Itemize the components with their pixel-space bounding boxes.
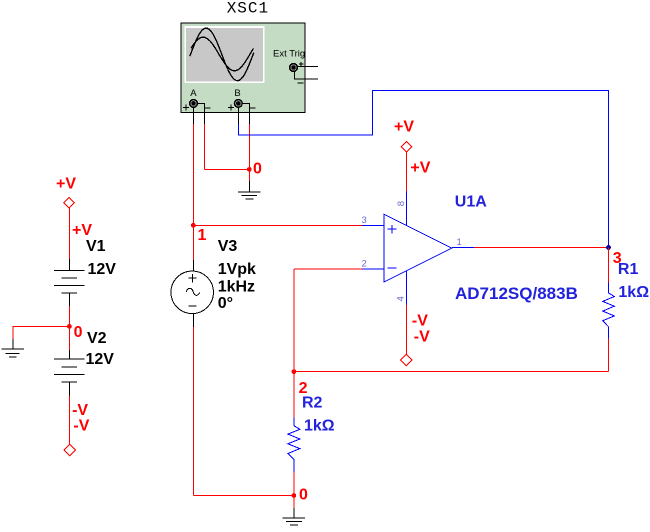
- opamp plus input sign: [388, 225, 397, 234]
- opamp minus input sign: [388, 267, 397, 269]
- oscilloscope pin A-: [198, 103, 205, 124]
- oscilloscope XSC1 body: [181, 23, 305, 112]
- bottom ground stub (black): [293, 508, 295, 518]
- svg-text:B: B: [234, 88, 240, 99]
- wire node3 to R1 (red): [608, 248, 610, 283]
- resistor R2: [288, 418, 300, 472]
- wire bottom node0 horizontal (red): [193, 495, 294, 497]
- svg-text:1: 1: [198, 227, 207, 244]
- power symbol +V (left) diamond: [64, 197, 75, 208]
- svg-text:0: 0: [253, 161, 262, 178]
- oscilloscope Ext Trig minus sign: [297, 82, 303, 84]
- ac source V3 circle: [171, 271, 214, 314]
- svg-text:0°: 0°: [218, 295, 233, 312]
- oscilloscope Ext Trig pin +: [298, 65, 318, 67]
- opamp pin1 stub (blue): [452, 247, 474, 249]
- svg-text:Ext Trig: Ext Trig: [273, 49, 305, 60]
- wire net2 vertical (red): [293, 269, 295, 372]
- node 3 junction: [606, 245, 611, 250]
- svg-text:XSC1: XSC1: [227, 0, 269, 18]
- V1 bottom lead (black): [68, 293, 70, 306]
- V2 bottom lead (black): [68, 382, 70, 395]
- wire +V to opamp pin8 (red): [405, 152, 407, 192]
- opamp U1A triangle: [384, 214, 452, 282]
- V3 sine symbol: [186, 288, 199, 295]
- opamp pin4 (blue): [405, 271, 407, 305]
- V3 bottom lead (black): [192, 313, 194, 327]
- svg-text:4: 4: [396, 296, 407, 301]
- oscilloscope pin B-: [243, 103, 250, 124]
- svg-text:-V: -V: [414, 328, 430, 345]
- wire net3 B+ blue path to output junction: [238, 91, 608, 248]
- svg-text:A: A: [190, 88, 197, 99]
- svg-text:2: 2: [362, 258, 367, 269]
- oscilloscope channel A minus sign: [205, 107, 211, 109]
- ground (scope): [238, 192, 261, 199]
- svg-text:1kΩ: 1kΩ: [304, 418, 335, 435]
- svg-text:-V: -V: [412, 312, 428, 329]
- V3 top lead (black): [192, 260, 194, 271]
- oscilloscope channel B plus sign: [228, 105, 234, 111]
- svg-text:R2: R2: [302, 395, 323, 412]
- ground (bottom): [283, 518, 306, 525]
- svg-text:3: 3: [362, 215, 367, 226]
- svg-text:R1: R1: [618, 261, 639, 278]
- svg-text:1Vpk: 1Vpk: [218, 261, 256, 278]
- wire V1 to V2 through node 0 (red): [68, 306, 70, 351]
- node 1 junction: [191, 223, 196, 228]
- wire +V diamond to V1 (red): [68, 208, 70, 259]
- V3 plus sign: [189, 274, 197, 282]
- wire node2 to R2 (red): [293, 372, 295, 418]
- oscilloscope channel A plus sign: [183, 105, 189, 111]
- oscilloscope channel B minus sign: [250, 107, 256, 109]
- wire V2 to -V diamond (red): [68, 395, 70, 444]
- oscilloscope pin B+: [237, 108, 239, 124]
- svg-text:-V: -V: [72, 402, 88, 419]
- opamp pin3 stub (blue): [362, 224, 384, 226]
- power symbol -V (opamp) diamond: [401, 354, 412, 365]
- node 2 junction: [292, 369, 297, 374]
- svg-text:12V: 12V: [88, 261, 117, 278]
- svg-text:8: 8: [396, 201, 407, 206]
- power symbol +V (opamp) diamond: [401, 141, 411, 151]
- battery V1: [54, 271, 85, 294]
- svg-text:1: 1: [457, 237, 462, 248]
- oscilloscope screen: [184, 26, 264, 83]
- wire V3 to node 0 bottom (red vertical): [192, 327, 194, 496]
- wire net1 node1 to opamp pin3 (red horizontal): [193, 224, 362, 226]
- battery V2: [54, 359, 85, 382]
- power symbol -V (left) diamond: [64, 444, 76, 456]
- wire R2 to node 0 (red): [293, 472, 295, 496]
- svg-text:1kΩ: 1kΩ: [618, 284, 649, 301]
- svg-text:-V: -V: [73, 418, 89, 435]
- wire net0 A- horizontal to junction (red): [205, 168, 250, 170]
- svg-text:0: 0: [299, 487, 308, 504]
- wire net0 A- vertical (red): [204, 124, 206, 169]
- svg-text:+V: +V: [56, 176, 76, 193]
- wire net1 A+ to node 1 (red vertical): [192, 124, 194, 260]
- svg-text:U1A: U1A: [455, 193, 487, 210]
- svg-text:+V: +V: [410, 159, 430, 176]
- oscilloscope Ext Trig terminal: [289, 63, 298, 72]
- svg-text:V1: V1: [86, 238, 106, 255]
- oscilloscope channel A terminal: [189, 99, 198, 108]
- ground (left): [1, 349, 23, 357]
- wire net2 pin2 horizontal (red): [294, 268, 362, 270]
- svg-text:0: 0: [74, 324, 83, 341]
- svg-text:V2: V2: [87, 330, 107, 347]
- wire feedback node2 to R1 (red horizontal): [294, 371, 609, 373]
- oscilloscope pin A+: [192, 108, 194, 124]
- resistor R1: [603, 283, 615, 339]
- svg-text:+V: +V: [394, 119, 414, 136]
- node 0 junction (left): [67, 324, 72, 329]
- svg-text:AD712SQ/883B: AD712SQ/883B: [455, 284, 578, 303]
- wire net0 B- vertical (red): [248, 124, 250, 181]
- svg-text:+V: +V: [72, 222, 92, 239]
- wire R1 to feedback (red): [608, 338, 610, 371]
- oscilloscope waveform trace B: [191, 37, 253, 71]
- svg-text:V3: V3: [218, 238, 238, 255]
- wire node0 to left ground (red): [13, 326, 69, 339]
- node 0 junction at scope ground: [247, 167, 252, 172]
- V1 top lead (black): [68, 259, 70, 271]
- oscilloscope Ext Trig plus sign: [299, 62, 303, 66]
- wire opamp pin4 to -V (red): [405, 304, 407, 354]
- node 0 junction (bottom): [292, 493, 297, 498]
- opamp pin2 stub (blue): [362, 268, 384, 270]
- svg-text:12V: 12V: [86, 351, 115, 368]
- scope ground stub: [248, 181, 250, 192]
- V3 minus sign: [189, 305, 197, 307]
- opamp pin8 (blue): [405, 192, 407, 226]
- wire opamp output to node 3 (red): [474, 247, 609, 249]
- wire node0 to bottom ground (red): [293, 496, 295, 508]
- oscilloscope waveform trace A: [190, 28, 254, 81]
- svg-text:1kHz: 1kHz: [218, 278, 255, 295]
- left ground stub (black): [12, 339, 14, 349]
- oscilloscope channel B terminal: [234, 99, 243, 108]
- oscilloscope Ext Trig pin -: [295, 72, 318, 79]
- V2 top lead (black): [68, 351, 70, 360]
